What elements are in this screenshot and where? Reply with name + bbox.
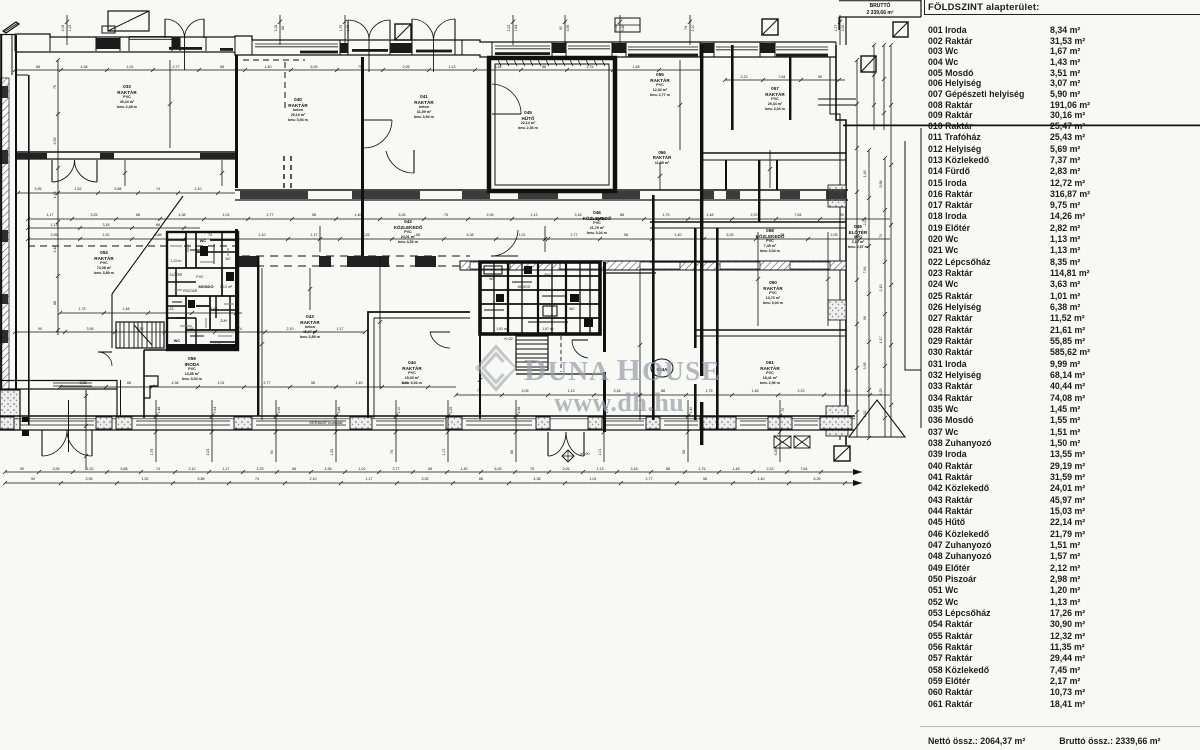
svg-text:1,17: 1,17	[47, 213, 54, 217]
svg-text:58: 58	[220, 65, 224, 69]
dashed beams above corridor x284	[283, 156, 285, 188]
svg-text:040: 040	[294, 97, 302, 102]
door arc room041 south	[413, 150, 415, 173]
right vertical dimension lines	[856, 60, 858, 437]
svg-text:PVC: PVC	[766, 371, 774, 375]
svg-text:2,77: 2,77	[571, 233, 578, 237]
svg-text:4,38: 4,38	[467, 233, 474, 237]
door arc near centre stairs	[572, 339, 588, 341]
left dimension line y228	[28, 227, 200, 229]
svg-text:3,25: 3,25	[841, 25, 845, 32]
svg-text:90: 90	[38, 327, 42, 331]
svg-text:68: 68	[292, 467, 296, 471]
svg-text:WC: WC	[225, 257, 231, 261]
svg-text:2,10: 2,10	[195, 187, 202, 191]
svg-text:bm= 3,94 m: bm= 3,94 m	[414, 115, 434, 119]
svg-text:3,95: 3,95	[277, 407, 281, 414]
small jamb marks	[22, 417, 29, 422]
svg-text:29,19 m²: 29,19 m²	[291, 113, 306, 117]
svg-text:7,64: 7,64	[844, 389, 851, 393]
wall x258	[257, 256, 259, 416]
exterior wall left	[15, 35, 17, 425]
svg-text:1,52: 1,52	[87, 467, 94, 471]
svg-text:7,64: 7,64	[801, 467, 808, 471]
svg-text:bm= 2,36 m: bm= 2,36 m	[518, 126, 538, 130]
wall x731	[731, 45, 734, 130]
svg-text:PVC: PVC	[766, 239, 774, 243]
svg-text:1,13 m²: 1,13 m²	[220, 285, 233, 289]
short partition walls above corridor right	[725, 160, 727, 190]
svg-text:1,17: 1,17	[337, 327, 344, 331]
svg-text:2,23: 2,23	[741, 75, 748, 79]
window dimension stubs bottom	[155, 400, 157, 462]
svg-text:3,25: 3,25	[363, 233, 370, 237]
door into cold room	[492, 113, 521, 115]
west annex column	[0, 34, 2, 420]
wall y153 under rooms 056 057	[700, 152, 846, 154]
svg-text:1,40: 1,40	[265, 65, 272, 69]
interior vertical dimension stubs	[261, 268, 263, 420]
wall y374 stair hall	[516, 373, 604, 375]
shaft symbol square 3	[893, 22, 908, 37]
svg-text:3,95: 3,95	[87, 327, 94, 331]
svg-text:68: 68	[136, 213, 140, 217]
svg-text:www.dh.hu: www.dh.hu	[554, 388, 684, 417]
wall x790	[789, 57, 791, 120]
svg-text:88: 88	[281, 26, 285, 30]
svg-text:74: 74	[156, 187, 160, 191]
svg-text:041: 041	[420, 94, 428, 99]
svg-text:1,40: 1,40	[355, 213, 362, 217]
svg-text:1,40: 1,40	[356, 381, 363, 385]
wall x362	[361, 57, 364, 256]
svg-text:1,13: 1,13	[597, 467, 604, 471]
sanitary cluster west (wc/mosdo)	[167, 232, 238, 350]
svg-text:58: 58	[428, 467, 432, 471]
svg-text:29,44 m²: 29,44 m²	[768, 102, 783, 106]
svg-text:1,57 m²: 1,57 m²	[542, 327, 554, 331]
steps small left of 059	[144, 376, 158, 398]
wall under room 033	[17, 151, 235, 153]
wall x236	[235, 55, 238, 188]
svg-text:21,79 m²: 21,79 m²	[590, 226, 605, 230]
svg-text:18,41 m²: 18,41 m²	[763, 376, 778, 380]
svg-text:2,10: 2,10	[189, 467, 196, 471]
svg-text:ELŐTÉR: ELŐTÉR	[170, 272, 183, 277]
svg-text:1,01: 1,01	[223, 213, 230, 217]
svg-text:90: 90	[863, 316, 867, 320]
ramp diagonal	[112, 196, 183, 294]
svg-text:1,01: 1,01	[127, 65, 134, 69]
svg-text:beton: beton	[293, 108, 303, 112]
svg-text:PVC: PVC	[656, 83, 664, 87]
door arc right of x362 wall	[364, 119, 392, 121]
svg-text:1,75: 1,75	[706, 389, 713, 393]
wall y262 room 060 top	[650, 261, 717, 263]
svg-text:1,13: 1,13	[53, 192, 57, 199]
wall x700	[700, 45, 703, 376]
small parallelogram top-left	[3, 22, 19, 33]
svg-text:bm= 2,57 m: bm= 2,57 m	[848, 245, 868, 249]
hatching above cold room	[497, 58, 501, 66]
svg-text:1,75: 1,75	[587, 65, 594, 69]
svg-text:3,95: 3,95	[566, 25, 570, 32]
watermark duna house logo	[475, 344, 517, 392]
south corridor dimension line east	[456, 394, 890, 396]
svg-text:5,88: 5,88	[198, 477, 205, 481]
svg-text:3,25: 3,25	[422, 477, 429, 481]
crossed boxes	[774, 436, 791, 448]
tall measurement box right	[905, 128, 921, 428]
bottom arrows	[853, 469, 862, 475]
top wall joints	[14, 34, 16, 51]
svg-text:6,26: 6,26	[727, 233, 734, 237]
svg-text:5,88: 5,88	[621, 25, 625, 32]
svg-text:1,75: 1,75	[699, 467, 706, 471]
svg-text:3,25: 3,25	[879, 389, 883, 396]
svg-text:88: 88	[620, 213, 624, 217]
svg-text:PVC: PVC	[408, 371, 416, 375]
bottom wall pillars	[0, 417, 14, 429]
svg-text:PVC: PVC	[854, 235, 862, 239]
svg-text:046: 046	[593, 210, 601, 215]
svg-text:4,38: 4,38	[81, 65, 88, 69]
svg-text:2,23: 2,23	[167, 307, 174, 311]
door arc room 044	[430, 331, 450, 333]
canopy rectangle with diagonal	[108, 11, 149, 31]
svg-text:bm= 3,04 m: bm= 3,04 m	[402, 381, 422, 385]
svg-text:10,73 m²: 10,73 m²	[766, 296, 781, 300]
dimension line room033 bottom	[18, 192, 235, 194]
svg-text:1,48: 1,48	[123, 307, 130, 311]
svg-text:2,77: 2,77	[646, 477, 653, 481]
svg-text:7,64: 7,64	[795, 213, 802, 217]
svg-text:ZUH.: ZUH.	[220, 319, 228, 323]
porch side verticals	[85, 390, 87, 416]
top dimension stubs	[66, 15, 68, 45]
svg-text:24,01 m²: 24,01 m²	[401, 235, 416, 239]
svg-text:044: 044	[408, 360, 416, 365]
svg-text:75: 75	[358, 65, 362, 69]
svg-text:90: 90	[270, 450, 274, 454]
svg-text:4,38: 4,38	[325, 467, 332, 471]
svg-text:beton: beton	[305, 325, 315, 329]
svg-text:74: 74	[208, 233, 212, 237]
gable triangle bottom right	[849, 400, 905, 437]
svg-text:45,97 m²: 45,97 m²	[303, 330, 318, 334]
svg-text:2,77: 2,77	[267, 213, 274, 217]
svg-text:2,10: 2,10	[310, 477, 317, 481]
svg-text:68: 68	[36, 65, 40, 69]
big corner pillar bottom left	[0, 390, 20, 430]
svg-text:PISZOÁR: PISZOÁR	[183, 289, 198, 293]
svg-text:1,75: 1,75	[150, 449, 154, 456]
svg-text:bm= 3,94 m: bm= 3,94 m	[288, 118, 308, 122]
svg-text:045: 045	[524, 110, 532, 115]
neighbouring wall hatch strip left edge	[0, 78, 9, 423]
svg-text:057: 057	[771, 86, 779, 91]
svg-text:7,45 m²: 7,45 m²	[764, 244, 777, 248]
svg-text:1,40: 1,40	[461, 467, 468, 471]
svg-text:4,38: 4,38	[534, 477, 541, 481]
svg-text:1,40: 1,40	[689, 407, 693, 414]
porch wall left y380	[0, 380, 117, 382]
svg-text:PVC: PVC	[593, 221, 601, 225]
svg-text:042: 042	[404, 219, 412, 224]
corridor dimension line 1	[28, 218, 890, 220]
svg-text:058: 058	[766, 228, 774, 233]
left vertical dim 2	[85, 396, 87, 470]
shaft symbol square 5 bottom	[834, 446, 850, 461]
svg-text:PVC: PVC	[188, 367, 196, 371]
svg-text:5,88: 5,88	[187, 327, 194, 331]
svg-text:043: 043	[306, 314, 314, 319]
svg-text:2,10: 2,10	[397, 407, 401, 414]
svg-text:74: 74	[879, 234, 883, 238]
svg-text:74: 74	[255, 477, 259, 481]
svg-text:3,18: 3,18	[53, 246, 57, 253]
svg-text:74: 74	[156, 467, 160, 471]
svg-text:beton: beton	[419, 105, 429, 109]
top wall sill strips	[169, 47, 202, 50]
wall joint y273	[606, 272, 656, 274]
svg-text:7,64: 7,64	[863, 267, 867, 274]
svg-text:PVC: PVC	[545, 273, 553, 277]
svg-text:MOSDÓ: MOSDÓ	[198, 284, 213, 289]
sanitary cluster centre	[480, 262, 600, 334]
svg-text:1,13: 1,13	[68, 25, 72, 32]
corridor south wall dashed beams	[28, 245, 235, 247]
svg-text:±0,00: ±0,00	[580, 452, 589, 456]
svg-text:74,08 m²: 74,08 m²	[97, 266, 112, 270]
exterior wall right	[836, 45, 846, 445]
svg-text:90: 90	[20, 467, 24, 471]
svg-text:5,88: 5,88	[879, 181, 883, 188]
svg-text:bm= 3,89 m: bm= 3,89 m	[300, 335, 320, 339]
svg-text:2,05: 2,05	[403, 65, 410, 69]
dashed lines room 040	[243, 59, 305, 61]
svg-text:2,10: 2,10	[879, 285, 883, 292]
svg-text:15,03 m²: 15,03 m²	[405, 376, 420, 380]
door corridor into cluster	[491, 255, 518, 257]
svg-text:58: 58	[311, 381, 315, 385]
wall x480 below cluster	[479, 334, 481, 418]
svg-text:2,23: 2,23	[798, 389, 805, 393]
svg-text:6,26: 6,26	[311, 65, 318, 69]
shaft symbol square 1	[395, 24, 411, 40]
svg-text:1,17: 1,17	[442, 449, 446, 456]
dimension line inside top rooms	[15, 69, 700, 71]
svg-text:060: 060	[769, 280, 777, 285]
svg-text:2,05: 2,05	[563, 467, 570, 471]
svg-text:1,75: 1,75	[79, 307, 86, 311]
svg-text:2,05: 2,05	[522, 389, 529, 393]
hatch strip dark blobs	[0, 86, 8, 98]
south corridor dimension line west	[60, 386, 456, 388]
svg-text:58: 58	[682, 450, 686, 454]
svg-text:1,13: 1,13	[531, 213, 538, 217]
wall y330 between 060 and 061	[695, 329, 846, 331]
shaft symbol square 2	[762, 19, 778, 35]
svg-text:WC: WC	[569, 307, 575, 311]
svg-text:74: 74	[684, 26, 688, 30]
svg-text:2,05: 2,05	[831, 233, 838, 237]
svg-text:4,38: 4,38	[517, 407, 521, 414]
double entrance doors top 1	[164, 19, 166, 38]
bottom wall window lines	[20, 420, 94, 422]
exterior wall bottom	[0, 415, 855, 417]
svg-text:90: 90	[31, 477, 35, 481]
svg-text:1,52: 1,52	[142, 477, 149, 481]
wall x653	[652, 195, 655, 420]
exterior wall top	[15, 34, 836, 57]
svg-text:1,52: 1,52	[863, 411, 867, 418]
bottom long dimension line 2	[5, 482, 852, 484]
svg-text:5,88: 5,88	[115, 187, 122, 191]
room 059 iroda walls	[144, 350, 238, 418]
svg-text:58: 58	[312, 213, 316, 217]
main entrance doors bottom west	[41, 430, 43, 456]
svg-text:6,26: 6,26	[399, 213, 406, 217]
wall y222 rooms 058/049	[650, 221, 846, 223]
svg-text:bm= 4,52 m: bm= 4,52 m	[398, 240, 418, 244]
svg-text:3,95: 3,95	[53, 467, 60, 471]
svg-text:bm= 3,04 m: bm= 3,04 m	[763, 301, 783, 305]
brutto area box top right	[839, 0, 921, 30]
svg-text:68: 68	[479, 477, 483, 481]
svg-text:75: 75	[53, 85, 57, 89]
svg-text:90: 90	[818, 75, 822, 79]
svg-text:+0,02: +0,02	[503, 337, 513, 341]
wall x695	[694, 228, 697, 348]
svg-text:1,51 m²: 1,51 m²	[496, 327, 508, 331]
dimension line top right	[725, 79, 845, 81]
corridor north wall	[235, 189, 848, 191]
short wall lines x818 y99	[818, 98, 856, 100]
svg-text:bm= 2,48 m: bm= 2,48 m	[117, 105, 137, 109]
svg-text:bm= 3,04 m: bm= 3,04 m	[765, 107, 785, 111]
svg-text:PVC: PVC	[196, 275, 204, 279]
double entrance doors top 2	[347, 20, 349, 39]
svg-text:3,18: 3,18	[274, 25, 278, 32]
svg-text:1,52: 1,52	[75, 187, 82, 191]
svg-text:1,52: 1,52	[614, 25, 618, 32]
svg-text:68: 68	[416, 233, 420, 237]
svg-text:1,01: 1,01	[519, 233, 526, 237]
svg-text:1,75: 1,75	[339, 25, 343, 32]
svg-text:1,17: 1,17	[879, 337, 883, 344]
svg-text:RAKTÁR: RAKTÁR	[653, 155, 672, 160]
svg-text:2,77: 2,77	[264, 381, 271, 385]
svg-text:059: 059	[188, 356, 196, 361]
svg-text:88: 88	[53, 301, 57, 305]
cold room 045 HŰTŐ thick insulated walls	[489, 58, 615, 191]
svg-text:bm= 3,89 m: bm= 3,89 m	[94, 271, 114, 275]
svg-text:3,18: 3,18	[575, 213, 582, 217]
svg-text:7,64: 7,64	[211, 307, 218, 311]
svg-text:22,14 m²: 22,14 m²	[521, 121, 536, 125]
svg-text:049: 049	[854, 224, 862, 229]
svg-text:1,01: 1,01	[598, 449, 602, 456]
svg-text:ELŐTÉR: ELŐTÉR	[849, 228, 868, 235]
mid dimension line y332	[15, 331, 365, 333]
corridor south wall hatched east part	[460, 261, 846, 270]
svg-text:3,25: 3,25	[91, 213, 98, 217]
svg-text:1,40: 1,40	[758, 477, 765, 481]
svg-text:3,18: 3,18	[495, 65, 502, 69]
strikethrough line row 010	[843, 124, 1200, 126]
svg-text:6,26: 6,26	[495, 467, 502, 471]
wall x759	[758, 160, 760, 222]
top wall pier blocks	[96, 38, 120, 49]
svg-text:90: 90	[559, 26, 563, 30]
svg-text:PVC: PVC	[769, 291, 777, 295]
svg-text:MOSDÓ: MOSDÓ	[518, 284, 531, 289]
svg-text:1,48: 1,48	[633, 65, 640, 69]
svg-text:11,35 m²: 11,35 m²	[655, 161, 670, 165]
svg-text:58: 58	[624, 233, 628, 237]
svg-text:88: 88	[156, 223, 160, 227]
svg-text:1,01: 1,01	[218, 381, 225, 385]
svg-text:KERAMIT burkolat: KERAMIT burkolat	[309, 420, 343, 425]
svg-text:31,59 m²: 31,59 m²	[417, 110, 432, 114]
rect marks above top wall x615	[615, 18, 640, 32]
wall x717	[716, 228, 719, 430]
svg-text:1,01: 1,01	[359, 467, 366, 471]
svg-text:033: 033	[123, 84, 131, 89]
svg-text:2,05: 2,05	[61, 25, 65, 32]
room 044 walls	[368, 312, 470, 418]
wall x605 corridor east	[603, 262, 606, 352]
svg-text:1,01: 1,01	[590, 477, 597, 481]
svg-text:2,05: 2,05	[53, 138, 57, 145]
svg-text:2,23: 2,23	[767, 467, 774, 471]
double doors in wall under 033	[51, 160, 53, 182]
svg-text:90: 90	[840, 213, 844, 217]
svg-text:1,17: 1,17	[311, 233, 318, 237]
svg-text:3,25: 3,25	[80, 381, 87, 385]
svg-text:bm= 3,04 m: bm= 3,04 m	[182, 377, 202, 381]
svg-text:bm= 3,04 m: bm= 3,04 m	[760, 249, 780, 253]
top wall window glazing lines	[129, 36, 172, 38]
svg-text:40,44 m²: 40,44 m²	[120, 100, 135, 104]
svg-text:1,48: 1,48	[346, 25, 350, 32]
svg-text:88: 88	[542, 65, 546, 69]
svg-text:5,88: 5,88	[121, 467, 128, 471]
svg-text:1,52: 1,52	[137, 327, 144, 331]
svg-text:1,40: 1,40	[675, 233, 682, 237]
circled room ref 034A	[651, 359, 673, 377]
cluster west extra partitions	[167, 232, 238, 350]
staircase centre	[516, 336, 548, 370]
svg-text:1,13 m²: 1,13 m²	[171, 259, 182, 263]
corridor dimension line 2	[28, 238, 890, 240]
svg-text:1,48: 1,48	[863, 171, 867, 178]
entrance centre post line	[68, 400, 70, 452]
svg-text:4,38: 4,38	[172, 381, 179, 385]
svg-text:WC: WC	[489, 277, 495, 281]
svg-text:2,77: 2,77	[393, 467, 400, 471]
svg-text:7,64: 7,64	[514, 25, 518, 32]
bottom long dimension line 1	[5, 471, 852, 473]
svg-text:PVC: PVC	[404, 230, 412, 234]
svg-text:3,95: 3,95	[51, 233, 58, 237]
svg-text:1,75: 1,75	[663, 213, 670, 217]
svg-text:75: 75	[444, 213, 448, 217]
svg-text:3,95: 3,95	[86, 477, 93, 481]
svg-text:68: 68	[127, 381, 131, 385]
svg-text:2,77: 2,77	[173, 65, 180, 69]
